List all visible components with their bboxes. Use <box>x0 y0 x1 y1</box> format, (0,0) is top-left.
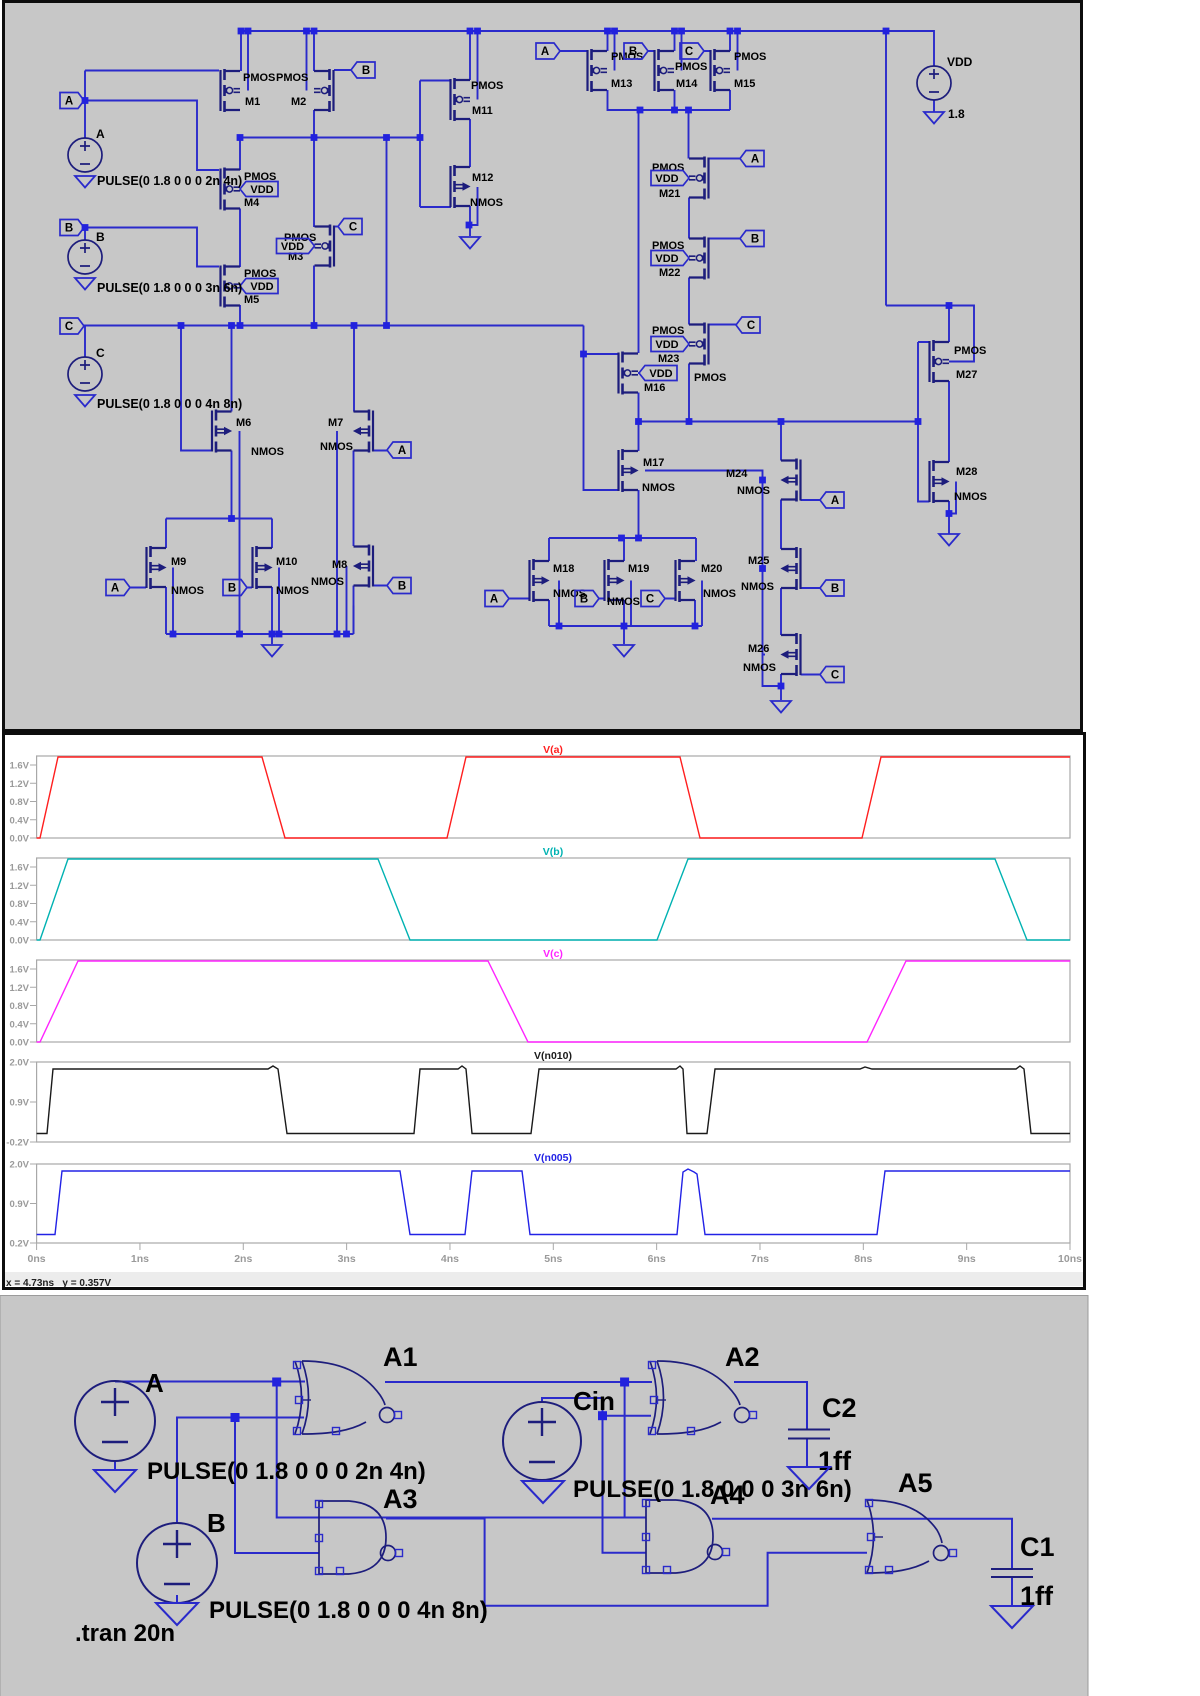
label M3 <box>288 251 303 263</box>
svg-text:PULSE(0 1.8 0 0 0 2n 4n): PULSE(0 1.8 0 0 0 2n 4n) <box>147 1458 426 1485</box>
svg-text:0.8V: 0.8V <box>9 899 29 910</box>
svg-text:NMOS: NMOS <box>741 581 774 593</box>
ground at V3 <box>75 395 95 407</box>
svg-text:A3: A3 <box>383 1484 418 1514</box>
voltage source V3 (C) <box>68 357 102 391</box>
svg-text:VDD: VDD <box>655 173 678 185</box>
wire M21-23 gates to flags <box>709 159 741 325</box>
label M1 value <box>243 72 275 84</box>
svg-text:M12: M12 <box>472 172 493 184</box>
svg-text:0.0V: 0.0V <box>9 936 29 947</box>
svg-text:VDD: VDD <box>655 253 678 265</box>
net flag A at M24 gate <box>820 492 844 508</box>
label V2 value <box>97 281 242 295</box>
svg-text:PMOS: PMOS <box>694 372 726 384</box>
wire A to A4 input <box>277 1382 646 1518</box>
gate A1 (XOR) <box>294 1361 402 1435</box>
ground at M12 source <box>460 237 480 249</box>
svg-text:M14: M14 <box>676 78 698 90</box>
label M12 <box>472 172 493 184</box>
svg-text:A: A <box>145 1368 164 1398</box>
net flag B at M19 gate <box>575 591 599 607</box>
transistor M1 <box>221 69 241 112</box>
label M4 <box>244 197 260 209</box>
net flag C at M15 gate <box>680 43 704 59</box>
ground at M28 source <box>939 534 959 546</box>
label C2 name <box>822 1393 857 1423</box>
svg-text:.tran 20n: .tran 20n <box>75 1620 175 1647</box>
gate A3 (AND) <box>316 1501 403 1575</box>
net flag B at M10 gate <box>223 580 247 596</box>
label M1 <box>245 96 260 108</box>
svg-text:NMOS: NMOS <box>320 441 353 453</box>
svg-text:M27: M27 <box>956 369 977 381</box>
svg-text:V(n010): V(n010) <box>534 1050 572 1062</box>
svg-text:M26: M26 <box>748 643 769 655</box>
svg-text:NMOS: NMOS <box>276 585 309 597</box>
wire n3 ground rail <box>549 581 702 645</box>
svg-text:C: C <box>831 670 839 682</box>
transistor M28 <box>930 460 950 503</box>
svg-text:C1: C1 <box>1020 1532 1055 1562</box>
svg-text:VDD: VDD <box>649 368 672 380</box>
net flag A at M9 gate <box>106 580 130 596</box>
gate A4 (AND) <box>643 1500 730 1574</box>
svg-text:A5: A5 <box>898 1468 933 1498</box>
transistor M7 <box>354 410 374 453</box>
svg-text:M2: M2 <box>291 96 306 108</box>
svg-text:V(b): V(b) <box>543 846 563 858</box>
wire M16 bulk <box>638 372 640 374</box>
label C1 name <box>1020 1532 1055 1562</box>
label V5 value <box>147 1458 426 1485</box>
transistor M16 <box>619 352 639 395</box>
label C2 value <box>818 1446 852 1476</box>
label A4 name <box>710 1480 745 1510</box>
svg-text:B: B <box>751 234 759 246</box>
wire M4-M5 chain <box>239 209 241 326</box>
svg-text:M23: M23 <box>658 353 679 365</box>
net flag VDD at M4 bulk <box>240 182 278 197</box>
svg-text:M18: M18 <box>553 563 574 575</box>
svg-text:0.0V: 0.0V <box>9 834 29 845</box>
svg-text:M8: M8 <box>332 559 347 571</box>
junctions M27/M28 <box>946 302 953 517</box>
svg-text:1ns: 1ns <box>131 1253 149 1265</box>
label M27 <box>956 369 977 381</box>
wire M24-26 chain <box>780 422 782 701</box>
label M23 <box>658 353 679 365</box>
svg-text:M1: M1 <box>245 96 260 108</box>
net flag B at M2 gate <box>351 62 375 78</box>
svg-text:NMOS: NMOS <box>311 576 344 588</box>
wire M2 gate to B flag <box>334 69 351 71</box>
label M14 <box>676 78 698 90</box>
transistor M11 <box>451 78 471 121</box>
waveform pane V(a) <box>9 744 1070 845</box>
label M2 value <box>276 72 308 84</box>
label V7 value <box>573 1476 852 1503</box>
svg-text:NMOS: NMOS <box>954 491 987 503</box>
label M24 value <box>737 485 770 497</box>
wire net A to M1/M4 gates <box>85 71 219 171</box>
transistor M4 <box>221 168 241 211</box>
svg-text:M21: M21 <box>659 188 680 200</box>
label V3 value <box>97 397 242 411</box>
wire net C row <box>84 326 584 451</box>
label M26 <box>748 643 769 655</box>
label directive <box>75 1620 175 1647</box>
trace V(n005) <box>37 1169 1070 1235</box>
svg-text:2ns: 2ns <box>234 1253 252 1265</box>
label M9 value <box>171 585 204 597</box>
svg-text:0.9V: 0.9V <box>9 1199 29 1210</box>
svg-text:V(n005): V(n005) <box>534 1152 572 1164</box>
wire net B <box>177 1418 319 1554</box>
label M13 <box>611 78 632 90</box>
label A3 name <box>383 1484 418 1514</box>
ground at V4 <box>924 112 944 124</box>
junction M12 source <box>466 222 473 229</box>
net flag VDD at M21 bulk <box>651 171 689 186</box>
svg-text:B: B <box>96 230 105 244</box>
svg-text:1ff: 1ff <box>818 1446 852 1476</box>
junctions node n1 <box>237 134 424 141</box>
wire A/B to M9/M10 gates <box>130 587 252 589</box>
label M17 value <box>642 482 675 494</box>
label M26 value <box>743 662 776 674</box>
gate A5 (OR) <box>866 1500 957 1574</box>
wire M24-26 gates to flags <box>801 500 821 675</box>
svg-text:PMOS: PMOS <box>243 72 275 84</box>
svg-text:PMOS: PMOS <box>954 345 986 357</box>
svg-text:NMOS: NMOS <box>607 596 640 608</box>
label M17 <box>643 457 664 469</box>
trace V(c) <box>37 961 1070 1042</box>
svg-text:PMOS: PMOS <box>734 51 766 63</box>
svg-text:M10: M10 <box>276 556 297 568</box>
label M18 value <box>553 588 586 600</box>
svg-text:-0.2V: -0.2V <box>6 1138 29 1149</box>
label M5 <box>244 294 259 306</box>
label M21 value <box>652 162 684 174</box>
net flag B at M14 gate <box>624 43 648 59</box>
transistor M3 <box>315 225 335 268</box>
label M10 <box>276 556 297 568</box>
net flag A at M18 gate <box>485 591 509 607</box>
svg-text:A1: A1 <box>383 1342 418 1372</box>
svg-text:PMOS: PMOS <box>611 51 643 63</box>
svg-text:Cin: Cin <box>573 1386 615 1416</box>
svg-text:A: A <box>398 445 406 457</box>
label M2 <box>291 96 306 108</box>
label V6 value <box>209 1597 488 1624</box>
transistor M19 <box>605 559 625 602</box>
svg-text:C: C <box>65 321 73 333</box>
net flag B at M8 gate <box>387 578 411 594</box>
svg-text:A: A <box>111 583 119 595</box>
transistor M14 <box>655 49 675 92</box>
svg-text:M20: M20 <box>701 563 722 575</box>
label M14 value <box>675 61 707 73</box>
junctions gate section <box>231 1378 630 1423</box>
net flag VDD at M23 bulk <box>651 337 689 352</box>
wire A3 output to A5 <box>386 1519 867 1606</box>
svg-text:M7: M7 <box>328 417 343 429</box>
voltage source V7 (Cin) <box>503 1402 581 1480</box>
transistor M18 <box>530 559 550 602</box>
wire M13-15 source rail <box>608 90 731 110</box>
svg-text:A: A <box>65 96 73 108</box>
label M15 value <box>734 51 766 63</box>
gate-level sheet background <box>0 1296 1088 1696</box>
ground at M18-20 rail <box>614 645 634 657</box>
voltage source V6 (B) <box>137 1523 217 1603</box>
ground at C1 <box>991 1606 1033 1628</box>
waveform window background <box>4 734 1085 1289</box>
label V5 name <box>145 1368 164 1398</box>
svg-text:B: B <box>228 583 236 595</box>
transistor M25 <box>781 547 801 590</box>
svg-text:PMOS: PMOS <box>471 80 503 92</box>
svg-text:M11: M11 <box>472 105 493 117</box>
wire cap grounds <box>807 1439 1012 1607</box>
transistor M24 <box>781 459 801 502</box>
svg-text:C2: C2 <box>822 1393 857 1423</box>
schematic sheet background <box>4 2 1082 731</box>
svg-text:1.2V: 1.2V <box>9 983 29 994</box>
wire M3 gate to C flag <box>335 226 339 228</box>
net flag C at M20 gate <box>641 591 665 607</box>
ground at V1 <box>75 176 95 188</box>
net flag B at M22 gate <box>740 231 764 247</box>
trace V(b) <box>37 859 1070 940</box>
svg-text:M5: M5 <box>244 294 259 306</box>
voltage source V4 (VDD) <box>917 66 951 100</box>
label M18 <box>553 563 574 575</box>
label M10 value <box>276 585 309 597</box>
svg-text:M22: M22 <box>659 267 680 279</box>
label M28 value <box>954 491 987 503</box>
label M22 <box>659 267 680 279</box>
label M25 value <box>741 581 774 593</box>
transistor M15 <box>711 49 731 92</box>
svg-text:VDD: VDD <box>250 281 273 293</box>
svg-text:NMOS: NMOS <box>703 588 736 600</box>
net flag C at M3 gate <box>338 219 362 235</box>
svg-text:M17: M17 <box>643 457 664 469</box>
label M27 value <box>954 345 986 357</box>
junctions node n2 <box>580 351 921 425</box>
svg-text:PMOS: PMOS <box>675 61 707 73</box>
transistor M5 <box>221 265 241 308</box>
svg-text:B: B <box>398 581 406 593</box>
svg-text:A: A <box>751 154 759 166</box>
transistor M22 <box>689 237 709 280</box>
svg-text:M24: M24 <box>726 468 748 480</box>
svg-text:0.9V: 0.9V <box>9 1098 29 1109</box>
net flag A at M7 gate <box>387 442 411 458</box>
net flag input A <box>60 93 84 109</box>
svg-text:NMOS: NMOS <box>171 585 204 597</box>
svg-text:1.6V: 1.6V <box>9 965 29 976</box>
svg-text:C: C <box>349 222 357 234</box>
transistor M27 <box>930 340 950 383</box>
wire A branch at A2/A4 <box>624 1382 626 1518</box>
svg-text:NMOS: NMOS <box>470 197 503 209</box>
wire M2 drain/bulk/source <box>307 31 315 137</box>
svg-text:VDD: VDD <box>947 55 973 69</box>
svg-text:5ns: 5ns <box>544 1253 562 1265</box>
wire M27-M28 node <box>949 381 956 534</box>
svg-text:PULSE(0 1.8 0 0 0 4n 8n): PULSE(0 1.8 0 0 0 4n 8n) <box>97 397 242 411</box>
label M20 value <box>703 588 736 600</box>
svg-text:PULSE(0 1.8 0 0 0 3n 6n): PULSE(0 1.8 0 0 0 3n 6n) <box>573 1476 852 1503</box>
wire net A / sum row <box>115 1382 807 1430</box>
svg-text:PULSE(0 1.8 0 0 0 2n 4n): PULSE(0 1.8 0 0 0 2n 4n) <box>97 174 242 188</box>
svg-text:3ns: 3ns <box>338 1253 356 1265</box>
svg-text:M25: M25 <box>748 555 769 567</box>
wire node n1 <box>240 81 420 326</box>
ground at C2 <box>788 1467 830 1489</box>
svg-text:9ns: 9ns <box>958 1253 976 1265</box>
svg-text:M28: M28 <box>956 466 977 478</box>
transistor M26 <box>781 633 801 676</box>
transistor M21 <box>689 157 709 200</box>
svg-text:NMOS: NMOS <box>251 446 284 458</box>
net flag C at M23 gate <box>736 317 760 333</box>
label M21 <box>659 188 680 200</box>
ground at V7 <box>522 1481 564 1503</box>
svg-text:B: B <box>362 65 370 77</box>
label M22 value <box>652 240 684 252</box>
svg-text:1.6V: 1.6V <box>9 863 29 874</box>
net flag C at M26 gate <box>820 667 844 683</box>
gate A2 (XOR) <box>649 1361 757 1435</box>
junctions n4 rails <box>170 515 350 637</box>
ground at M26 source <box>771 701 791 713</box>
wire M13-15 drains/bulks <box>608 31 738 71</box>
voltage source V5 (A) <box>75 1381 155 1461</box>
label M11 value <box>471 80 503 92</box>
transistor M8 <box>354 545 374 588</box>
svg-text:A: A <box>831 495 839 507</box>
svg-text:VDD: VDD <box>250 184 273 196</box>
label M23 value <box>652 325 684 337</box>
label M19 <box>628 563 649 575</box>
svg-text:6ns: 6ns <box>648 1253 666 1265</box>
wire M3 source <box>313 266 315 326</box>
label A5 name <box>898 1468 933 1498</box>
transistor M12 <box>451 165 471 208</box>
net flag VDD at M22 bulk <box>651 251 689 266</box>
svg-text:V(a): V(a) <box>543 744 563 756</box>
net flag VDD at M16 bulk <box>639 366 677 381</box>
wire node n2 <box>639 422 919 452</box>
label M25 <box>748 555 769 567</box>
svg-text:0.4V: 0.4V <box>9 917 29 928</box>
svg-text:NMOS: NMOS <box>737 485 770 497</box>
wire M6 source to n4 rail <box>166 431 272 634</box>
wire net Cin <box>542 1398 651 1553</box>
svg-text:A: A <box>541 46 549 58</box>
svg-text:B: B <box>65 223 73 235</box>
transistor M2 <box>314 69 334 112</box>
net flag B at M25 gate <box>820 580 844 596</box>
svg-text:0.4V: 0.4V <box>9 815 29 826</box>
svg-text:2.0V: 2.0V <box>9 1058 29 1069</box>
label M6 <box>236 417 251 429</box>
ground at V5 <box>94 1470 136 1492</box>
net flag VDD at M5 bulk <box>240 279 278 294</box>
transistor M13 <box>588 49 608 92</box>
net flag input B <box>60 220 84 236</box>
wire rail drops <box>639 110 689 422</box>
svg-text:0.8V: 0.8V <box>9 797 29 808</box>
label M24 <box>726 468 748 480</box>
svg-text:M4: M4 <box>244 197 260 209</box>
svg-text:M13: M13 <box>611 78 632 90</box>
label V4 name <box>947 55 973 69</box>
label A2 name <box>725 1342 760 1372</box>
label M3 value <box>284 232 316 244</box>
label M11 <box>472 105 493 117</box>
junctions n3 rails <box>556 535 699 630</box>
svg-text:1.6V: 1.6V <box>9 761 29 772</box>
svg-text:PULSE(0 1.8 0 0 0 3n 6n): PULSE(0 1.8 0 0 0 3n 6n) <box>97 281 242 295</box>
label M15 <box>734 78 755 90</box>
svg-text:PMOS: PMOS <box>276 72 308 84</box>
wire M7-M8 chain <box>353 451 355 635</box>
transistor M20 <box>676 559 696 602</box>
label V6 name <box>207 1508 226 1538</box>
voltage source V2 (B) <box>68 240 102 274</box>
ground at V6 <box>156 1603 198 1625</box>
wire M27/M28 gate tie <box>918 342 930 502</box>
label M5 value <box>244 268 276 280</box>
label M13 value <box>611 51 643 63</box>
svg-text:M6: M6 <box>236 417 251 429</box>
label V7 name <box>573 1386 615 1416</box>
svg-text:0.4V: 0.4V <box>9 1019 29 1030</box>
wire VDD to M27 <box>886 31 974 362</box>
svg-text:1.2V: 1.2V <box>9 881 29 892</box>
label V4 value <box>948 107 965 121</box>
net flag input C <box>60 318 84 334</box>
svg-text:PULSE(0 1.8 0 0 0 4n 8n): PULSE(0 1.8 0 0 0 4n 8n) <box>209 1597 488 1624</box>
svg-text:VDD: VDD <box>281 241 304 253</box>
label M7 value <box>320 441 353 453</box>
svg-text:8ns: 8ns <box>854 1253 872 1265</box>
svg-text:0.0V: 0.0V <box>9 1038 29 1049</box>
status bar <box>5 1272 1083 1286</box>
wire A4 output to C1 <box>712 1519 1012 1569</box>
svg-text:1.8: 1.8 <box>948 107 965 121</box>
svg-text:1.2V: 1.2V <box>9 779 29 790</box>
label A1 name <box>383 1342 418 1372</box>
label M6 value <box>251 446 284 458</box>
svg-text:B: B <box>207 1508 226 1538</box>
wire M11/M12 column <box>470 31 478 236</box>
capacitor C1 <box>991 1569 1033 1577</box>
label C1 value <box>1020 1581 1054 1611</box>
label M16 value <box>694 372 726 384</box>
label M8 value <box>311 576 344 588</box>
svg-text:M16: M16 <box>644 382 665 394</box>
svg-text:A: A <box>96 127 105 141</box>
wire VDD bus <box>240 31 934 66</box>
junctions inputs / node C row <box>82 97 390 329</box>
